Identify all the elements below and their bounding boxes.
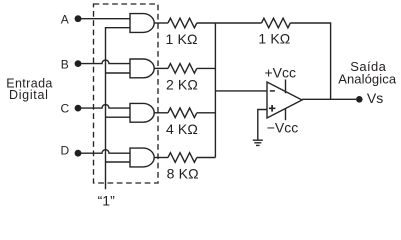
resistor R4 8 Kohm (168, 153, 197, 163)
svg-text:−Vcc: −Vcc (267, 119, 299, 135)
svg-text:1 KΩ: 1 KΩ (166, 31, 198, 47)
wire gate B output to resistor R2 (154, 67, 168, 69)
wire R1 to summing bus (197, 22, 216, 24)
terminal dot B (75, 60, 82, 67)
output terminal dot (356, 96, 363, 103)
AND gate D (130, 148, 154, 167)
svg-text:D: D (60, 144, 69, 158)
wire summing node to op-amp inverting input (215, 90, 267, 92)
svg-text:A: A (61, 13, 69, 27)
wire R2 to summing bus (197, 67, 216, 69)
svg-text:Analógica: Analógica (338, 71, 397, 86)
ground symbol (253, 140, 263, 145)
op-amp inverting (-) sign (270, 90, 275, 92)
wire non-inverting input to ground (258, 110, 267, 141)
feedback wire R5 to output node (290, 23, 330, 99)
wire R4 to summing bus (197, 157, 216, 159)
op-amp -Vcc pin (285, 109, 287, 121)
resistor R1 1 Kohm (168, 18, 197, 28)
wire gate C output to resistor R3 (154, 112, 168, 114)
wire summing node to feedback resistor R5 (215, 22, 261, 24)
svg-text:B: B (61, 58, 69, 72)
op-amp non-inverting (+) sign (269, 105, 276, 112)
logic-1 bus vertical wire (106, 28, 131, 190)
svg-text:C: C (60, 102, 69, 116)
svg-text:+Vcc: +Vcc (264, 65, 296, 81)
svg-text:8 KΩ: 8 KΩ (167, 165, 199, 181)
terminal dot C (75, 105, 82, 112)
svg-text:“1”: “1” (98, 192, 115, 208)
resistor R2 2 Kohm (168, 64, 197, 74)
svg-text:Vs: Vs (367, 90, 383, 106)
wire A input to gate (81, 18, 130, 20)
wire B input to gate (with crossover hump) (81, 60, 130, 64)
resistor R3 4 Kohm (168, 108, 197, 118)
feedback resistor R5 1 Kohm (262, 18, 291, 28)
wire logic-1 to gate D lower input (106, 161, 131, 163)
AND gate A (130, 14, 154, 33)
summing bus vertical wire (214, 23, 216, 158)
wire logic-1 to gate C lower input (106, 116, 131, 118)
wire D input to gate (with crossover hump) (81, 150, 130, 153)
svg-text:2 KΩ: 2 KΩ (166, 77, 198, 93)
AND gate C (130, 103, 154, 122)
dashed selection box (94, 4, 159, 183)
svg-text:1 KΩ: 1 KΩ (258, 31, 290, 47)
wire gate A output to resistor R1 (154, 22, 168, 24)
op-amp output wire to Vs terminal (302, 98, 356, 100)
wire R3 to summing bus (197, 112, 216, 114)
wire gate D output to resistor R4 (154, 157, 168, 159)
op-amp U1 triangle (267, 82, 302, 118)
wire logic-1 to gate B lower input (106, 72, 131, 74)
svg-text:Digital: Digital (9, 88, 49, 102)
terminal dot A (75, 15, 82, 22)
AND gate B (130, 59, 154, 78)
op-amp +Vcc pin (285, 80, 287, 94)
svg-text:4 KΩ: 4 KΩ (166, 121, 198, 137)
terminal dot D (75, 150, 82, 157)
wire C input to gate (with crossover hump) (81, 105, 130, 108)
